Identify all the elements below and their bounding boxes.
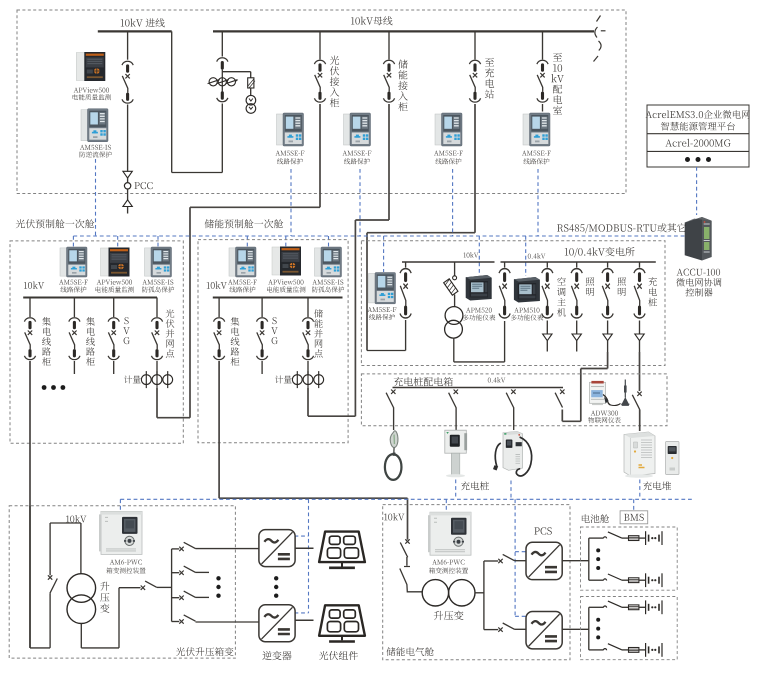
wire: LV feeder tail x=547.3 [546,341,548,352]
label: to 10kV distribution room [551,53,564,115]
wire: blade to fuse 2 y=649.9 [622,649,629,651]
wire: bus feeder stub x=320 [319,31,321,59]
wire: PV skid feeder stub x=113.7 [113,298,115,318]
enclosure: charging pile distribution box (dashed) [361,374,667,426]
device AM5SE-F line protection relay 2 [344,113,371,146]
wire: lighting2 feeder to distribution box [562,352,607,421]
wire: ESS grid point to box edge [308,388,355,416]
wire: LV feeder tail x=607.6 [607,341,609,352]
device AM5SE-F line protection relay 1 [277,113,304,146]
switch: battery disconnect 2 y=649.9 [603,644,621,651]
transformer: ESS step-up (two windings horizontal) [422,580,475,606]
wire: PV box HV loop [30,506,81,648]
CT: current transformer 3 [226,78,238,86]
node PCC: point of common coupling circle [124,178,130,189]
enclosure: battery rack 2 (dashed) [581,597,678,660]
wire: battery bank trunk 2 [588,607,590,650]
dots: more inverter branches [216,576,220,598]
switch: inverter branch 4 [179,615,195,624]
label: step-up transformer (PV) [100,582,109,613]
metering CT b (PV) [152,371,162,388]
device APM510 meter [514,277,540,303]
breaker: LV feeder x=607.6 [602,269,613,318]
comm drop: PV box AM6-PWC [119,499,121,511]
wire: inverter branch 4 stub [172,621,180,623]
label: air conditioning host [557,277,566,317]
fuse: PT fuse [248,78,256,88]
busbar: 10kV main bus [213,30,594,32]
comm drop: relay1 [290,169,292,236]
comm drop: PV skid AM5SE-F [72,236,74,247]
label: 10kV (PV skid) [24,281,44,288]
breaker: LV feeder x=547.3 [542,269,553,318]
comm drop: APM510 [525,236,527,276]
label: APView500 (ESS skid) [267,279,305,292]
wire: PCS branch 1 to PCS [515,560,527,562]
comm bus: RS485 horizontal [73,235,684,237]
busbar: substation 0.4kV bus [501,261,656,263]
drawout link: isolating contacts with bars [217,58,228,102]
wire: PV skid feeder stub x=74.4 [73,298,75,318]
wire: stub below up-triangle [127,207,129,214]
device AM5SE-F (ESS skid) [229,247,256,277]
label: AM5SE-F (ESS skid) [228,280,257,293]
breaker: ESS skid feeder breaker x=308 [302,318,313,360]
label: ESS SVG [271,317,278,344]
wire: between switches [404,557,410,567]
wire: LV switch to branch trunk [157,549,172,622]
breaker: substation 10kV incomer [400,269,411,318]
label: 10kV side [464,252,479,257]
wire: PCS branch 2 to PCS [515,628,527,630]
label: Acrel-2000MG [665,139,730,147]
breaker: 10kV incoming breaker [122,61,133,103]
label: metering (PV) [124,375,141,383]
device AM5SE-IS (ESS skid) [315,247,342,277]
wire: inverter branch 1 to inverter [196,548,259,550]
device: charging gun with cable [385,431,402,480]
device APM520 meter [466,275,492,301]
wire: LV feeder to arrow x=547.3 [546,321,548,335]
wire: fuse to battery 2 y=649.9 [639,649,646,651]
wire: fuse to battery 1 y=580.2 [639,579,646,581]
dots: more collector feeders [42,385,66,390]
wire: charging-pile feeder through box [639,352,641,391]
device AM6-PWC (PV box) [99,511,142,554]
label: 10kV incoming line [121,18,165,27]
switch: ESS hall switch 2 blade [400,569,423,592]
PV array: panel 2 [319,605,365,641]
switch: charging stack feeder [632,392,641,410]
comm drop: PCS vertical [515,499,525,616]
device: floor charging pile [493,432,532,476]
wire: PCS branch 2 stub [484,629,498,631]
enclosure: 10/0.4kV substation (dashed) [361,241,665,366]
comm drop: substation AM5SE-F [383,236,385,272]
wire: inverter branch 3 stub [172,597,180,599]
wire: incomer loop [367,262,406,351]
comm drop: relay3 [452,169,454,236]
label: ESS grid connection point [314,309,323,357]
breaker: LV feeder x=639.5 [634,269,645,318]
wire: bus to drawout link [172,31,223,172]
transformer: PV step-up (two windings vertical) [67,574,96,624]
metering CT b (ESS) [303,371,313,388]
wire: PV skid feeder stub x=30 [29,298,31,318]
label: 10kV (ESS skid) [207,281,227,288]
fuse: battery fuse 1 y=538.1 [629,536,639,541]
wire: ESS SVG feeder stub [261,361,263,374]
wire: inverter branch 4 to inverter [196,621,259,623]
wire: ESS skid feeder stub x=308 [307,298,309,318]
switch: dist box feeder x=513.4 [506,390,515,408]
label: APM510 [511,308,543,321]
battery: string 2 y=607.3 [646,600,662,614]
wire: SVG feeder stub [113,361,115,374]
enclosure: ESS electrical hall (dashed) [383,505,570,660]
wire: blade to fuse 1 y=538.1 [622,537,629,539]
label: AM5SE-F (substation) [368,307,397,320]
device AM5SE-F (PV skid) [60,247,87,277]
label: collector cubicle 1 [42,317,51,366]
device AM5SE-F line protection relay 4 [523,113,550,146]
wire: fuse to transformer [454,295,456,307]
wire: PCS1 to battery bank [562,560,589,562]
wire: incoming feeder to PCC [127,105,129,172]
metering CT c (ESS) [314,371,324,388]
wire: LV feeder tail x=576.7 [576,341,578,352]
wire: battery branch 2 y=607.3 [589,606,604,608]
wire: PV grid point to box edge [157,388,190,418]
wire: charging stack drop [639,410,641,432]
wire: LV feeder tail x=639.5 [639,341,641,352]
wire: dist box feeder drop x=393.3 [393,407,395,430]
label: ESS hall title [387,647,434,656]
label: collector cubicle 2 [86,317,95,366]
converter: PCS 1 [526,542,562,579]
wire: PV skid feeder stub x=157 [156,298,158,318]
comm drop: ESS skid AM5SE-IS [328,236,330,247]
switch: battery disconnect 1 y=538.1 [603,532,621,539]
comm drop: ESS skid AM5SE-F [246,236,248,247]
wire: PV feeder down and left to PV skid [190,104,320,418]
label: lighting 2 [617,277,625,296]
wire: battery branch 1 y=538.1 [589,537,604,539]
device ADW300 IoT meter [590,381,621,406]
label: APM520 [463,308,495,321]
wire: collector feeder 2 stub [73,361,75,374]
comm drop: PV skid AM5SE-IS [157,236,159,249]
wire: blade to fuse 1 y=580.2 [622,579,629,581]
wire: inverter branch 2 stub end [196,571,210,573]
dots: battery strings 2 [596,618,600,640]
comm drop: PV skid APView500 [117,236,119,248]
wire: LV feeder to arrow x=607.6 [607,321,609,335]
wire: LV feeder to arrow x=639.5 [639,321,641,335]
label: AcrelEMS3.0 title [646,110,750,130]
battery: string 2 y=649.9 [646,643,662,657]
wire: PT branch drop [454,262,456,276]
wire: collector feeder 1 down to box transformer [29,361,31,648]
wire: dist box feeder drop x=455.8 [455,407,457,430]
metering CT c (PV) [163,371,173,388]
wire: bus feeder stub x=475 [474,31,476,59]
label: charging stack [643,481,671,490]
wire: inverter1 to PV panel [295,547,313,549]
comm bus: field level horizontal [120,498,692,500]
metering CT a (ESS) [292,371,302,388]
comm drop: relay4 [537,169,539,236]
comm drop: APM520 [478,236,480,274]
metering CT a (PV) [141,371,151,388]
wire: below PCC crossing enclosure [127,189,129,200]
switch: inverter branch 3 [179,591,195,600]
arrow: feeder direction triangle [123,171,132,178]
label: 10kV (PV box) [66,515,86,522]
wire: PCS2 to battery bank [562,628,589,630]
label: to charging station [485,58,494,99]
wire: LV feeder stub x=547.3 [546,262,548,268]
wire: inverter branch 1 stub [172,548,180,550]
comm riser: charging stack [639,480,641,500]
label: APView500 (PV skid) [96,279,134,292]
label: charging pile feeder [648,277,657,306]
wire: fuse to PT [250,88,252,95]
label: step-up transformer (ESS) [434,611,464,620]
breaker: 10kV feeder breaker x=542.5 [537,60,548,102]
switch: dist box feeder x=455.8 [449,390,458,408]
wire: ESS grid point feeder [307,361,309,375]
comm riser: wallbox charger [455,480,457,500]
device AM5SE-IS anti-backfeed protection relay [81,109,108,142]
device ACCU-100 microgrid coordinator [685,217,712,261]
fuse: battery fuse 2 y=649.9 [629,648,639,653]
wire: PT tap [222,72,250,78]
enclosure: PV step-up box transformer (dashed) [9,506,235,658]
wire: battery branch 1 y=580.2 [589,579,604,581]
breaker: ESS skid feeder breaker x=262.1 [257,318,268,360]
label: BMS [624,514,644,521]
wire: bus feeder stub x=389 [388,31,390,59]
label: 0.4kV (dist box) [488,377,506,382]
label: SVG [123,317,130,344]
device APView500 power quality monitor [76,52,105,81]
label: metering (ESS) [275,375,292,383]
busbar: PV skid 10kV bus [23,297,157,299]
device AM6-PWC (ESS hall) [428,512,471,555]
arrow: LV feeder triangle x=639.5 [635,334,644,341]
label: AM5SE-IS [80,145,112,158]
wire: blade to fuse 2 y=607.3 [622,606,629,608]
label: storage connection cubicle [398,60,408,112]
label: PCC [134,182,152,189]
device: wallbox charging pile [445,430,467,477]
label: inverter [262,651,291,660]
disconnect: PT hook [453,276,457,280]
switch: dist box feeder x=393.3 [386,390,395,408]
label: AM5SE-IS (ESS skid) [312,280,344,293]
dots: battery strings 1 [596,548,600,570]
block: BMS box [620,511,648,524]
CT: current transformer 1 [208,78,220,86]
label: battery compartment [582,514,609,523]
wire: PCS branch 1 stub [484,560,498,562]
busbar: substation 10kV bus [402,261,495,263]
wire: feeder 4 stub [542,104,544,112]
label: 10kV busbar [351,16,392,25]
label: charging distribution box title [394,377,453,386]
label: substation title [565,247,635,257]
device AM5SE-F line protection relay 3 [435,113,462,146]
label: PV step-up box title [176,647,234,656]
PV array: panel 1 [319,532,365,568]
label: PV connection cubicle [330,56,339,108]
label: APView500 [73,87,111,100]
comm drop: inverters vertical [295,499,309,613]
comm link: platform to ACCU-100 [696,167,698,215]
breaker: PV skid feeder breaker x=113.7 [108,318,119,360]
wire: inverter2 to PV panel [295,619,313,621]
label: 0.4kV side [528,253,546,258]
comm drop: ESS skid APView500 [285,236,287,246]
switch: inverter branch 2 [179,566,195,575]
wire: storage feeder down and left to storage skid [355,104,389,416]
label: AM5SE-IS (PV skid) [142,280,174,293]
breaker: 10kV feeder breaker x=475 [469,60,480,102]
wire: transformer LV to breaker [454,262,505,362]
PT: voltage transformer (double winding) [246,95,256,113]
switch: battery disconnect 2 y=607.3 [603,601,621,608]
wire: inverter branch 2 stub [172,572,180,574]
label: PV grid connection point [166,309,175,357]
switch: ESS hall switch 1 [400,539,409,557]
battery: string 1 y=538.1 [646,531,662,545]
enclosure: 10kV switchgear room (dashed) [17,10,626,194]
converter: PV inverter 2 [259,605,295,642]
comm riser: floor charger [510,481,512,500]
wire: LV feeder stub x=576.7 [576,262,578,268]
wire: fuse to battery 2 y=607.3 [639,606,646,608]
device APView500 (PV skid) [101,248,130,277]
breaker: PV skid feeder breaker x=157 [151,318,162,360]
label: 10kV (ESS hall) [384,513,404,520]
wire: ESS skid feeder stub x=219.1 [218,298,220,318]
label: AM6-PWC (PV box) [106,560,145,574]
wire: LV feeder stub x=639.5 [639,262,641,268]
label: AM5SE-F 2 [343,151,372,165]
wire: battery bank trunk 1 [588,538,590,580]
wire: LV feeder to arrow x=576.7 [576,321,578,335]
label: AM5SE-F 3 [434,151,463,165]
label: AM5SE-F 4 [522,151,551,165]
wire: 10kV incoming overhead line [98,30,172,32]
wire: dist box feeder drop x=513.4 [513,407,515,430]
breaker: ESS skid feeder breaker x=219.1 [214,318,225,360]
wire: ESS LV trunk [475,561,484,630]
comm drop: BMS [633,499,635,510]
label: charging piles [461,481,489,490]
battery: string 1 y=580.2 [646,573,662,587]
device AM5SE-F (substation) [369,273,396,304]
label: PV prefab cabin title [16,219,95,228]
label: RS485/MODBUS-RTU bus [557,223,686,233]
breaker: 10kV feeder breaker x=389 [383,60,394,102]
block: AcrelEMS3.0 platform box [647,105,749,167]
label: ESS prefab cabin title [205,219,283,228]
converter: PCS 2 [526,612,562,649]
fuse: battery fuse 1 y=580.2 [629,578,639,583]
arrow: LV feeder triangle x=547.3 [543,334,552,341]
fuse: battery fuse 2 y=607.3 [629,605,639,610]
breaker: substation LV main [499,269,510,318]
label: AM6-PWC (ESS hall) [429,560,468,574]
breaker: 10kV feeder breaker x=320 [314,60,325,102]
label: AM5SE-F 1 [276,151,305,165]
busbar: distribution box 0.4kV bus [393,387,564,389]
breaker: PV skid feeder breaker x=74.4 [69,318,80,360]
switch: inverter branch 1 [179,542,195,551]
fuse: substation PT fuse [444,279,458,295]
label: PV modules [319,651,358,660]
device: charging pillar [666,442,680,475]
busbar: ESS skid 10kV bus [213,297,343,299]
comm drop: ESS AM6-PWC [445,499,447,512]
switch: dist box incomer [555,390,564,408]
wire: bus feeder stub x=542.5 [542,31,544,59]
enclosure: ESS prefab cabin (dashed) [198,240,348,443]
CT: current transformer 2 [217,78,229,86]
dots: more inverters [274,576,278,598]
transformer: substation 10/0.4kV (two windings) [445,307,463,339]
breaker: PV skid feeder breaker x=30 [24,318,35,360]
breaker: LV feeder x=576.7 [571,269,582,318]
wire: PV box LV loop [81,588,140,648]
label: ACCU-100 [676,269,721,297]
enclosure: PV prefab cabin (dashed) [10,241,183,443]
bus break symbol (continuation squiggle) [594,16,606,62]
comm drop: relay2 [359,169,361,236]
wire: ESS collector feeder down to ESS hall [219,361,407,540]
wire: LV feeder stub x=607.6 [607,262,609,268]
arrow: LV feeder triangle x=576.7 [572,334,581,341]
arrow: LV feeder triangle x=607.6 [603,334,612,341]
wire: battery branch 2 y=649.9 [589,649,604,651]
label: ADW300 [588,411,621,424]
wire: incoming feeder drop [127,31,129,59]
switch: battery disconnect 1 y=580.2 [603,574,621,581]
device AM5SE-IS (PV skid) [145,247,172,277]
wire: ESS skid feeder stub x=262.1 [261,298,263,318]
device: charging stack cabinet [624,432,655,478]
switch: PCS branch 2 [498,623,514,632]
enclosure: battery rack 1 (dashed) [581,527,678,590]
label: lighting 1 [586,277,594,296]
antenna: ADW300 wireless antenna [621,380,630,406]
converter: PV inverter 1 [259,530,295,567]
label: AM5SE-F (PV skid) [59,280,88,293]
switch: PV box HV isolator [48,575,57,593]
device APView500 (ESS skid) [272,247,301,276]
comm drop: top-box APView500/AM5SE-IS [95,159,97,236]
switch: PV box LV switch [141,581,157,590]
wire: fuse to battery 1 y=538.1 [639,537,646,539]
wire: substation feeder down [367,104,475,351]
label: PCS [534,527,551,534]
wire: inverter branch 3 stub end [196,596,210,598]
dots: platform ellipsis [685,157,711,162]
label: ESS collector cubicle [231,317,240,366]
arrow: up triangle below PCC [123,200,132,207]
